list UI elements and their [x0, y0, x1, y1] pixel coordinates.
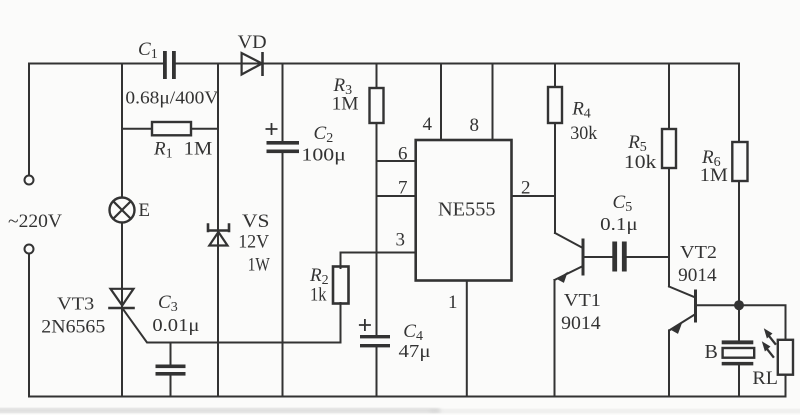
svg-text:1M: 1M [700, 165, 728, 186]
svg-text:VT3: VT3 [57, 294, 94, 314]
svg-text:E: E [138, 200, 150, 221]
svg-text:VS: VS [242, 211, 270, 232]
svg-text:30k: 30k [570, 123, 597, 144]
svg-text:2: 2 [521, 178, 531, 199]
svg-text:4: 4 [423, 114, 433, 135]
svg-text:3: 3 [396, 230, 406, 251]
svg-text:10k: 10k [624, 152, 657, 173]
svg-text:1k: 1k [310, 285, 327, 306]
svg-text:0.01μ: 0.01μ [152, 315, 199, 335]
svg-text:1: 1 [448, 292, 458, 313]
svg-text:~220V: ~220V [8, 211, 62, 232]
svg-text:1W: 1W [248, 255, 270, 276]
svg-text:0.1μ: 0.1μ [600, 214, 638, 234]
svg-text:NE555: NE555 [438, 199, 496, 221]
svg-text:6: 6 [398, 144, 408, 165]
svg-text:12V: 12V [238, 232, 269, 253]
svg-text:2N6565: 2N6565 [41, 317, 105, 338]
svg-text:1M: 1M [184, 139, 213, 160]
svg-text:0.68μ/400V: 0.68μ/400V [125, 87, 218, 107]
svg-text:B: B [705, 341, 718, 363]
svg-text:1M: 1M [332, 94, 359, 115]
svg-text:7: 7 [398, 178, 408, 199]
svg-text:9014: 9014 [678, 265, 717, 286]
svg-text:8: 8 [470, 115, 480, 136]
svg-text:47μ: 47μ [399, 341, 431, 361]
svg-text:VT1: VT1 [564, 290, 601, 310]
svg-text:VT2: VT2 [680, 242, 717, 262]
svg-text:VD: VD [238, 32, 267, 53]
svg-text:9014: 9014 [561, 313, 601, 334]
svg-text:100μ: 100μ [301, 145, 346, 165]
svg-text:RL: RL [752, 368, 778, 389]
